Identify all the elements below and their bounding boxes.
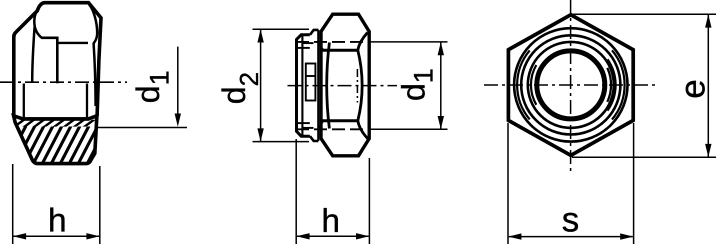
d1 extension horizontal	[98, 127, 188, 129]
d1 dimension middle view	[370, 42, 448, 129]
h dimension middle view	[296, 139, 369, 244]
centerline left view	[0, 81, 127, 83]
hex middle facet left arc	[327, 43, 330, 129]
d1 mid arrow bottom	[438, 116, 444, 129]
e arrow bottom	[705, 144, 711, 157]
right horizontal centerline	[484, 84, 656, 86]
h ext line left	[12, 164, 14, 244]
s arrow left	[508, 233, 521, 239]
d2 arrow bottom	[257, 128, 263, 141]
h dim line	[14, 235, 100, 237]
e dim line	[707, 15, 709, 158]
hex bottom-left corner arc	[320, 121, 323, 128]
hidden bore bottom dashed	[296, 128, 369, 130]
bore right vertical	[86, 84, 88, 118]
section outline	[14, 116, 97, 164]
collar inner vertical	[301, 35, 303, 135]
s ext right	[633, 123, 635, 244]
h ext left middle	[295, 139, 297, 244]
s arrow right	[620, 233, 633, 239]
d2 arrow top	[257, 29, 263, 42]
dome center vertical	[56, 37, 59, 84]
collar outline	[297, 35, 310, 136]
hex face line top	[323, 49, 358, 52]
d1 ext bottom middle	[370, 128, 448, 130]
collar insert rect	[306, 64, 316, 101]
collar ring bottom	[310, 136, 318, 141]
d1 dim line middle	[440, 42, 442, 129]
thread circle outer	[514, 28, 627, 141]
d2 ext bottom	[253, 141, 310, 143]
bore left vertical	[23, 84, 25, 118]
thread circle middle	[521, 35, 620, 134]
h arrow right	[86, 233, 99, 239]
svg-text:h: h	[48, 202, 67, 239]
e dimension	[572, 14, 716, 157]
collar ring right edge	[317, 30, 319, 141]
h mid arrow right	[356, 233, 369, 239]
collar line l2	[297, 122, 310, 124]
s dimension	[508, 123, 634, 244]
collar ring top	[310, 30, 318, 35]
middle vertical center tick	[356, 69, 358, 103]
middle centerline	[288, 85, 398, 87]
d1 dimension left view	[98, 47, 188, 128]
collar line u1	[303, 42, 314, 44]
dome neck line upper	[42, 36, 58, 39]
svg-text:e: e	[673, 79, 712, 98]
insert dome right silhouette	[89, 4, 97, 106]
hex top-left corner arc	[320, 43, 323, 50]
insert dome crown left curve	[34, 4, 43, 39]
thread arc right outer	[612, 50, 625, 119]
s ext left	[507, 123, 509, 244]
h mid arrow left	[296, 233, 309, 239]
collar line u2	[297, 47, 310, 49]
h dimension left view	[13, 164, 100, 244]
thread circle inner	[528, 42, 614, 128]
section hatch shallow band lines	[12, 118, 97, 129]
d1 leader arrow	[175, 114, 181, 127]
bore seat thick line	[22, 117, 89, 120]
bore circle	[537, 51, 605, 119]
left view outer outline	[14, 3, 101, 117]
collar line l1	[303, 127, 314, 129]
right vertical centerline	[570, 0, 572, 171]
e ext bottom	[572, 156, 716, 158]
d2 dim line	[260, 30, 262, 142]
h arrow left	[13, 233, 26, 239]
thread arc left outer	[517, 50, 530, 119]
s dim line	[509, 236, 633, 238]
collar insert divider	[306, 75, 316, 77]
dome neck line lower	[56, 42, 88, 44]
hidden bore top dashed	[296, 41, 369, 43]
d2 dimension	[253, 29, 310, 141]
thread arc right innermost	[607, 68, 611, 102]
hex body octagon	[321, 14, 369, 156]
hex right chamfer curve	[358, 33, 368, 139]
thread arc right inner	[608, 59, 616, 110]
section hatch steep lines	[4, 118, 110, 169]
d1 mid arrow top	[438, 42, 444, 55]
d2 ext top	[253, 28, 310, 30]
e ext top	[572, 13, 716, 15]
svg-text:s: s	[562, 201, 580, 240]
hex face line bottom	[323, 119, 358, 122]
dome left flank	[32, 27, 34, 83]
h dim line middle	[297, 235, 369, 237]
d1 ext top middle	[370, 41, 448, 43]
e arrow top	[705, 14, 711, 27]
h ext right middle	[368, 158, 370, 244]
hexagon outline	[508, 15, 633, 156]
d1 leader vertical line	[177, 47, 179, 115]
h ext line right	[99, 166, 101, 244]
svg-text:h: h	[321, 203, 340, 240]
thread arc left inner	[531, 65, 536, 105]
